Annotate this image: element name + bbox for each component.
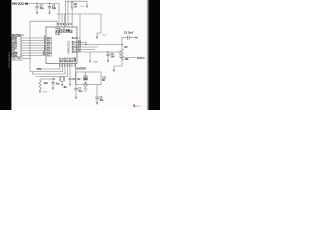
ground arrow under C7	[75, 97, 77, 100]
pin names right edge of U1	[72, 38, 77, 54]
pin names left edge of U1	[47, 38, 52, 58]
ground arrow under C5	[48, 12, 50, 15]
power arrow down x97	[96, 37, 98, 40]
capacitor C10 on P2 column	[68, 64, 71, 84]
svg-text:GND: GND	[93, 62, 98, 64]
svg-text:VCC: VCC	[80, 6, 85, 8]
resistor R1	[71, 1, 73, 27]
svg-text:AT89C2051: AT89C2051	[68, 40, 71, 54]
svg-text:VCC: VCC	[102, 35, 107, 37]
node junction x37	[36, 3, 37, 4]
wire ENTER label to x30 vertical	[22, 57, 30, 59]
wire U1 P1.1 to node x86	[77, 42, 86, 44]
ground arrow under R3	[39, 91, 41, 94]
capacitor C8 under box right	[95, 85, 98, 103]
capacitor C7 under box left	[74, 85, 77, 97]
resistor R2 reset pulldown	[114, 45, 123, 70]
wire U1 P1.4	[77, 49, 95, 51]
wire P2.2 staircase y74	[33, 64, 66, 75]
ground bars under buzzer	[83, 89, 87, 91]
wire P2.5 down to buzzer box	[75, 64, 77, 85]
buzzer bottom terminal circle	[84, 83, 87, 86]
wire J1 pin2 to U1 P3.1	[21, 40, 46, 42]
node junction x108	[107, 51, 108, 52]
wire x80 down right of U1 to P1 row	[79, 14, 81, 45]
svg-text:P3.7: P3.7	[47, 55, 52, 57]
wire top pin x65.5	[65, 1, 67, 27]
connector J1 keypad box	[12, 37, 21, 57]
power arrow right x136	[136, 36, 139, 39]
ground arrow under C9	[52, 88, 54, 91]
svg-text:XT1: XT1	[37, 69, 42, 71]
mcu U1 box	[46, 27, 77, 64]
wire J1 pin4 to U1 P3.3	[21, 45, 46, 47]
capacitor C3 reset electrolytic	[122, 36, 136, 45]
wire U1 P1.0 stub	[77, 37, 80, 39]
wire top pin x62	[61, 14, 63, 27]
pin numbers right of U1	[78, 40, 81, 53]
svg-text:ENTER: ENTER	[13, 58, 22, 61]
black bar left	[0, 0, 11, 110]
connector row dividers	[12, 39, 21, 54]
wire U1 P1.5 to OUT net	[77, 51, 120, 53]
wire top pin x68	[67, 1, 69, 27]
wire J1 pin6 to U1 P3.5	[21, 50, 46, 52]
wire J1 pin5 to U1 P3.4	[21, 47, 46, 49]
pin names top edge of U1	[56, 27, 74, 35]
svg-text:10u: 10u	[78, 91, 83, 93]
capacitor C5	[48, 4, 51, 13]
pin numbers left of U1	[43, 36, 46, 57]
wire OUT net to right label	[120, 52, 137, 58]
svg-text:P2.5: P2.5	[72, 57, 74, 62]
ground arrow under C4	[36, 12, 38, 15]
wire U1 P1.2 RST net to R2/C3	[77, 44, 122, 46]
crystal Y1	[60, 77, 64, 84]
svg-text:4M: 4M	[63, 86, 66, 89]
svg-text:+5V VCC−IN: +5V VCC−IN	[12, 2, 29, 6]
ground arrow x90	[89, 61, 91, 64]
pin numbers top of U1	[58, 23, 73, 26]
ground arrow under C8	[96, 102, 98, 105]
wire J1 pin1 to U1 P3.0	[21, 37, 46, 39]
svg-text:INT: INT	[72, 29, 74, 33]
pin names bottom edge of U1	[60, 57, 77, 62]
svg-text:104: 104	[111, 56, 116, 59]
svg-text:8R: 8R	[102, 80, 105, 82]
svg-text:OUT−1: OUT−1	[137, 56, 145, 60]
svg-text:KEYPAD−1: KEYPAD−1	[12, 33, 24, 37]
ground arrow under C6	[107, 60, 109, 63]
svg-text:33p: 33p	[52, 7, 57, 10]
label ENTER net	[12, 57, 22, 60]
svg-text:LS1: LS1	[102, 78, 107, 80]
ground arrow under C10	[69, 84, 71, 87]
svg-text:33p: 33p	[40, 7, 45, 10]
wire terminal to ground	[85, 86, 87, 89]
wire U1 P1.3	[77, 46, 98, 48]
wire P2.3 staircase y76.5	[36, 64, 68, 77]
svg-text:BUZZER: BUZZER	[76, 67, 86, 71]
resistor R3 with capacitor C9 branch	[39, 79, 55, 91]
wire y14 bus across to x101 then VCC pointer	[57, 14, 101, 37]
svg-text:GND: GND	[75, 57, 77, 62]
buzzer LS1 box	[76, 72, 101, 85]
wire stub down to GND pointer x90	[89, 52, 91, 61]
svg-text:C3 10uF: C3 10uF	[124, 32, 134, 35]
node junction x122 on RST net	[121, 44, 122, 45]
svg-text:GND: GND	[42, 92, 47, 94]
wire J1 pin8 to U1 P3.7	[21, 55, 46, 57]
capacitor C6 decoupling	[106, 52, 109, 60]
node junction x86 on RST net	[85, 44, 86, 45]
connector pin labels	[12, 38, 18, 58]
wire vertical x30 down left side	[29, 21, 31, 71]
wire J1 pin7 to U1 P3.6	[21, 52, 46, 54]
capacitor C4	[35, 4, 38, 13]
wire +5V rail to XTAL1 top pin	[27, 4, 59, 28]
svg-text:P1.0: P1.0	[72, 38, 77, 40]
wire P2.1 staircase y71.5 to x30	[30, 64, 63, 72]
node junction x49.5	[49, 3, 50, 4]
pin numbers bottom of U1	[59, 65, 77, 68]
black bar right	[149, 0, 160, 110]
svg-text:10k: 10k	[125, 58, 130, 61]
wire top pin x64.5	[64, 14, 66, 27]
power arrow down x87	[86, 6, 88, 9]
svg-text:P1.5: P1.5	[72, 52, 77, 54]
page edge gradient	[146, 0, 149, 110]
ground arrow under Y1	[61, 84, 63, 87]
ground arrow x114	[113, 70, 115, 73]
node junction x80 on RST net	[79, 44, 80, 45]
wire P2.0 staircase y69	[36, 64, 60, 70]
wire node A to RST top pin	[30, 21, 57, 27]
wire VCC top rail to arrow x87	[66, 1, 88, 5]
node junction x120	[119, 51, 120, 52]
svg-text:10u: 10u	[56, 84, 61, 86]
buzzer symbol	[84, 72, 88, 85]
svg-text:circuitstoday: circuitstoday	[7, 51, 11, 68]
wire J1 pin3 to U1 P3.2	[21, 42, 46, 44]
